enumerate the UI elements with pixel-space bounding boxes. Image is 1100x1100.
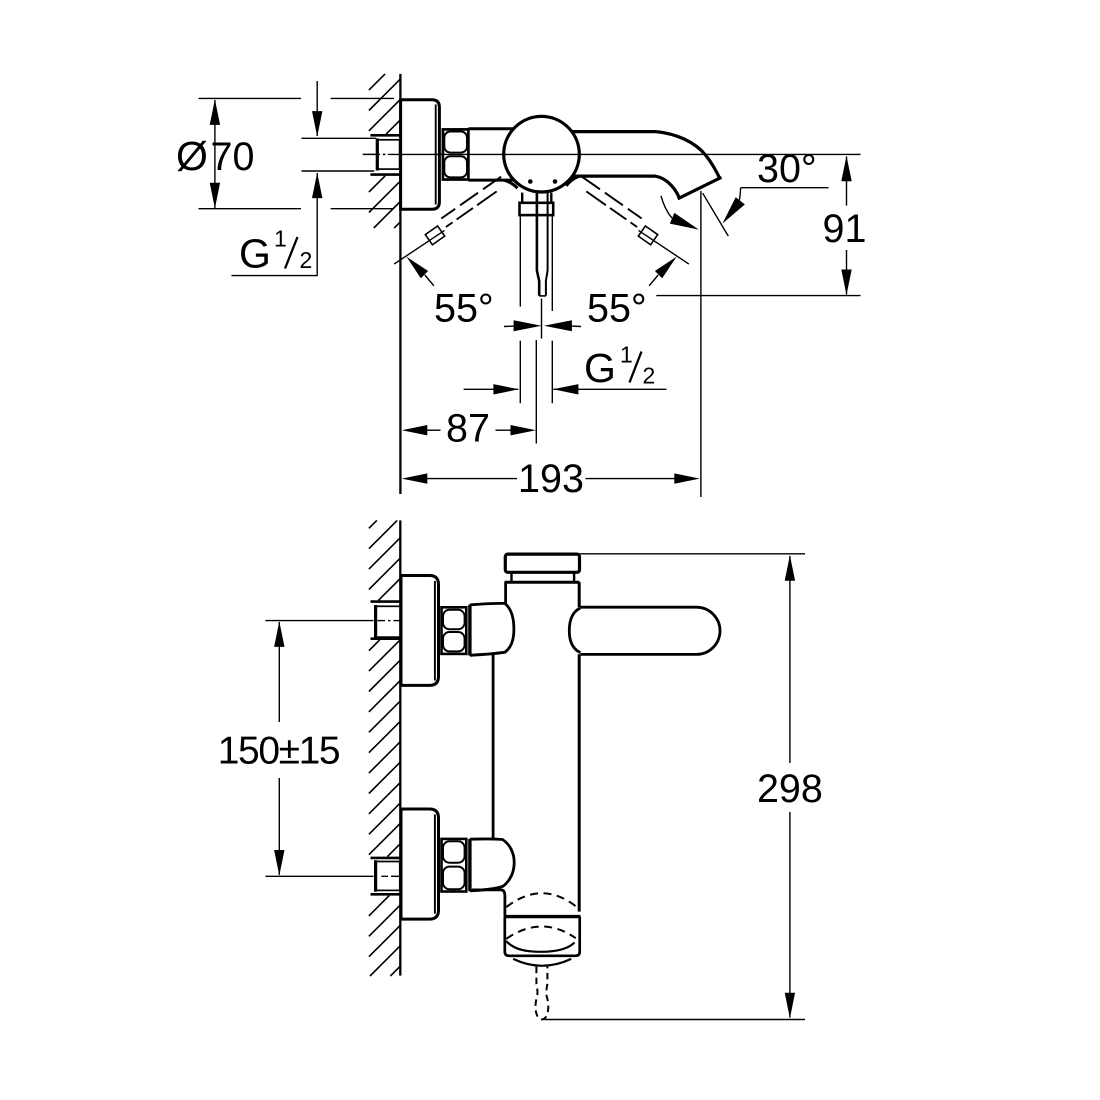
svg-text:193: 193 xyxy=(518,457,584,501)
lever handle (front view) xyxy=(580,607,720,654)
bowl inside cup xyxy=(506,941,575,952)
svg-text:30°: 30° xyxy=(757,147,817,191)
svg-text:2: 2 xyxy=(300,247,313,273)
svg-text:70: 70 xyxy=(211,135,255,179)
body fillet wedges at circle xyxy=(505,180,518,188)
dashed lever position 55deg right xyxy=(582,177,600,190)
svg-text:150±15: 150±15 xyxy=(218,730,340,773)
supply square fitting (top view) xyxy=(377,140,399,169)
spout swing arc arrow xyxy=(661,196,672,218)
87 dimension xyxy=(402,425,428,435)
svg-text:1: 1 xyxy=(620,342,633,368)
dashed outlet nipple xyxy=(536,967,549,1020)
svg-text:1: 1 xyxy=(274,226,287,252)
aerator dashed dome above cup xyxy=(506,893,576,907)
spout mouth vertical extension line xyxy=(700,191,702,497)
svg-text:55°: 55° xyxy=(587,287,647,331)
top union bell (front view) xyxy=(468,605,471,656)
91 dimension xyxy=(846,157,848,206)
lever handle pointing forward (top view) xyxy=(521,193,523,203)
union nut (top view) xyxy=(443,129,469,179)
body outline (front view) xyxy=(504,582,507,603)
svg-text:Ø: Ø xyxy=(176,133,208,179)
body shoulder line xyxy=(505,581,580,584)
union tube to valve body (top view) xyxy=(468,127,513,130)
wall face line (front view) xyxy=(399,520,401,975)
valve body circle (top view) xyxy=(504,116,580,192)
150+-15 dimension xyxy=(265,620,373,622)
svg-text:298: 298 xyxy=(757,767,823,811)
dashed arc inside cup xyxy=(506,926,576,938)
diameter 70 dimension xyxy=(199,97,302,99)
dome below cup xyxy=(513,959,571,966)
bottom escutcheon (front view) xyxy=(401,809,439,919)
298 dimension xyxy=(580,553,805,555)
top union nut (front view) xyxy=(442,607,467,654)
bottom union bell (front view) xyxy=(468,839,471,891)
bottom union nut (front view) xyxy=(442,839,467,892)
outlet cup xyxy=(505,917,580,956)
G1/2 supply dimension arrows xyxy=(316,81,318,136)
escutcheon wall flange (top view) xyxy=(401,100,440,210)
spout (top view) xyxy=(572,130,656,133)
horizontal centre line (top view) xyxy=(363,153,380,155)
svg-text:91: 91 xyxy=(823,207,867,251)
55deg arrows at centre line xyxy=(514,320,542,331)
193 dimension xyxy=(402,473,428,483)
wall hatching (front view) xyxy=(369,520,377,528)
bottom supply flange lines (front view) xyxy=(371,857,402,860)
extension line outlet axis (for 87) xyxy=(535,340,537,444)
supply pipe flange lines (top view) xyxy=(370,134,399,137)
55deg dimension leg line left xyxy=(394,230,444,264)
55deg dimension leg line right xyxy=(639,230,689,264)
top supply square fitting (front view) xyxy=(376,606,401,637)
body cap plate (front view) xyxy=(505,554,579,572)
G1/2 dimension (outlet) xyxy=(464,388,519,390)
top escutcheon (front view) xyxy=(401,576,439,686)
wall hatching (top view) xyxy=(369,74,385,90)
wall face line (top view) xyxy=(399,74,401,494)
lever axis centre line (vertical) xyxy=(541,299,543,339)
svg-text:87: 87 xyxy=(446,406,490,450)
spout flow axis slant line xyxy=(703,193,729,236)
extension lines of lever ring / G1/2 outlet xyxy=(519,215,521,307)
screw dots on valve body xyxy=(528,179,533,184)
svg-text:2: 2 xyxy=(643,363,656,389)
cap neck band xyxy=(510,572,512,582)
svg-text:G: G xyxy=(584,345,616,391)
svg-text:55°: 55° xyxy=(434,287,494,331)
svg-text:G: G xyxy=(239,231,271,277)
top supply flange lines (front view) xyxy=(371,600,402,603)
cup top line xyxy=(504,915,581,918)
bottom supply square fitting (front view) xyxy=(376,862,400,891)
dashed lever position 55deg left xyxy=(483,177,501,190)
